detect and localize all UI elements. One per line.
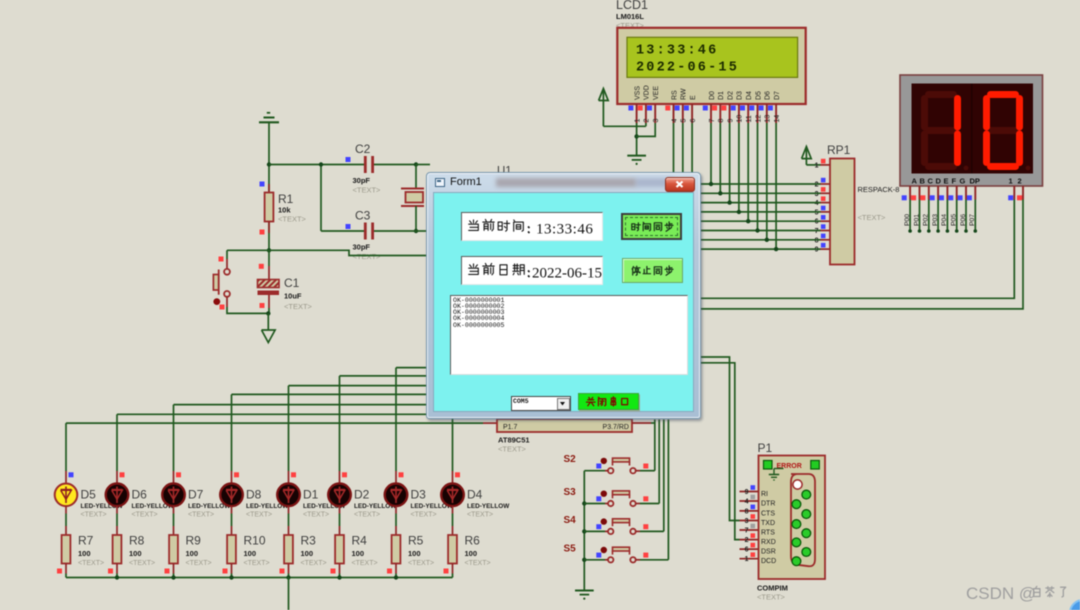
svg-text:12: 12 (755, 115, 762, 123)
textbox current date (461, 256, 603, 285)
wire D4 to R6 (452, 506, 454, 514)
DB9 green pin 3 (802, 510, 811, 519)
svg-text:P04: P04 (941, 214, 948, 226)
node junction at R1 top (267, 162, 271, 166)
svg-text:<TEXT>: <TEXT> (354, 512, 380, 519)
svg-text:5: 5 (815, 209, 819, 216)
svg-text:D5: D5 (81, 488, 97, 502)
svg-text:RS: RS (671, 90, 678, 100)
svg-text:C: C (928, 177, 934, 186)
svg-text:7: 7 (815, 228, 819, 235)
svg-text:R1: R1 (278, 192, 294, 206)
LED D5 (65, 471, 67, 484)
LED D8 (231, 471, 233, 484)
wire (415, 206, 417, 231)
wire LCD D6 down (766, 123, 768, 240)
LCD LM016L body (617, 28, 805, 104)
svg-text:S4: S4 (564, 515, 577, 526)
LED D3 (395, 471, 397, 484)
ground (bar style) below switches (575, 590, 594, 592)
wire LED bus D4 (below form) (452, 419, 454, 471)
svg-text:<TEXT>: <TEXT> (81, 512, 107, 519)
svg-text:5: 5 (681, 119, 688, 123)
svg-text:D1: D1 (303, 488, 319, 502)
svg-text:P02: P02 (923, 214, 930, 226)
resistor R3 (288, 526, 290, 535)
svg-text:RESPACK-8: RESPACK-8 (858, 185, 900, 194)
svg-text:1: 1 (634, 119, 641, 123)
wire mcu TXD to P1 (700, 357, 740, 521)
svg-text:2: 2 (815, 182, 819, 189)
svg-text:COMPIM: COMPIM (757, 584, 788, 593)
wire D8 to R10 (231, 506, 233, 514)
wire data row D0 (700, 183, 821, 185)
wire (321, 230, 364, 232)
wire LCD D2 down (729, 123, 731, 203)
LED D2 pin square (342, 472, 347, 477)
svg-text:AT89C51: AT89C51 (498, 436, 530, 445)
P1 pin 2 RXD (740, 539, 759, 541)
svg-text:<TEXT>: <TEXT> (303, 512, 329, 519)
wire (395, 574, 397, 578)
wire (268, 308, 270, 313)
svg-text:8: 8 (815, 237, 819, 244)
svg-text:E: E (944, 177, 949, 186)
RP1 pin 5 (821, 211, 831, 213)
svg-text:2022-06-15: 2022-06-15 (532, 266, 602, 282)
LCD screen (627, 37, 798, 77)
svg-text:D7: D7 (774, 91, 781, 100)
7-seg pin P07 (974, 186, 976, 200)
svg-text:<TEXT>: <TEXT> (465, 560, 491, 567)
wire data row D7 (700, 248, 821, 250)
wire (231, 574, 233, 578)
node junction C3 right (414, 229, 418, 233)
svg-text:P01: P01 (913, 214, 920, 226)
svg-text:R9: R9 (186, 534, 202, 548)
svg-text:C1: C1 (284, 276, 300, 290)
wire LED bus row D7 (174, 404, 501, 406)
svg-text:LED-YELLOW: LED-YELLOW (467, 503, 510, 510)
wire S2 to mcu (640, 470, 655, 472)
svg-text:7: 7 (709, 119, 716, 123)
svg-text:R3: R3 (301, 534, 317, 548)
LED D2 (339, 471, 341, 484)
P1 pin 6 DSR (740, 548, 759, 550)
svg-text:14: 14 (774, 115, 781, 123)
svg-text:R7: R7 (78, 534, 94, 548)
LED D5 pin square (69, 472, 74, 477)
wire S5 to rail (584, 559, 605, 561)
P1 pin 7 RTS (740, 529, 759, 531)
7-seg pin P00 (909, 186, 911, 200)
DB9 green pin 6 (792, 538, 801, 547)
P1 pin 4 DTR (740, 500, 759, 502)
svg-text:1: 1 (745, 556, 749, 563)
svg-text:D6: D6 (765, 91, 772, 100)
svg-text:D6: D6 (132, 488, 148, 502)
wire D2 to R4 (339, 506, 341, 514)
P1 pin 3 TXD (740, 520, 759, 522)
textbox current time (461, 212, 603, 241)
RP1 pin 1 (821, 164, 831, 166)
svg-text:3: 3 (745, 518, 749, 525)
svg-text:RXD: RXD (761, 539, 776, 546)
RP1 pin 2 (821, 183, 831, 185)
crystal X1 (401, 188, 424, 190)
svg-text:VDD: VDD (644, 85, 651, 100)
svg-text:LM016L: LM016L (616, 12, 644, 21)
7-segment display body (900, 75, 1043, 186)
P1 pin 8 CTS (740, 510, 759, 512)
wire (269, 164, 364, 166)
resistor R1 (260, 182, 265, 187)
svg-text:3: 3 (653, 119, 660, 123)
resistor R7 (65, 526, 67, 535)
wire data row D1 (700, 192, 821, 194)
resistor R10 (231, 526, 233, 535)
listbox (450, 295, 688, 375)
svg-text:<TEXT>: <TEXT> (278, 215, 307, 224)
7-seg pin P01 (919, 186, 921, 200)
Form1 client area (433, 192, 694, 412)
wire D5 to R7 (65, 506, 67, 514)
svg-text:D7: D7 (188, 488, 204, 502)
svg-text:6: 6 (745, 547, 749, 554)
wire LED bus row D3 (396, 367, 500, 369)
svg-text:7: 7 (745, 528, 749, 535)
wire LCD D3 down (738, 123, 740, 212)
svg-text:RTS: RTS (761, 530, 775, 537)
svg-text:D5: D5 (755, 91, 762, 100)
node junction D5 (755, 228, 759, 232)
wire LCD D7 down (775, 123, 777, 249)
svg-text:D4: D4 (467, 488, 483, 502)
LED D8 pin square (234, 472, 239, 477)
svg-text:30pF: 30pF (353, 243, 371, 252)
svg-text:<TEXT>: <TEXT> (186, 560, 212, 567)
svg-text:3: 3 (815, 191, 819, 198)
svg-text:P1: P1 (758, 441, 773, 455)
svg-text:S2: S2 (564, 454, 577, 465)
wire RW to U1 (682, 123, 684, 172)
wire RS to U1 (673, 123, 675, 172)
svg-text:B: B (920, 177, 926, 186)
wire mcu P3.7 stub (632, 422, 651, 424)
LED D6 (116, 471, 118, 484)
svg-text:<TEXT>: <TEXT> (467, 512, 493, 519)
svg-text:<TEXT>: <TEXT> (498, 445, 527, 454)
wire LED bus row D8 (232, 393, 501, 395)
wire data row D6 (700, 239, 821, 241)
svg-text:LCD1: LCD1 (616, 0, 648, 12)
svg-text:RI: RI (761, 491, 768, 498)
svg-text:D2: D2 (727, 91, 734, 100)
svg-text:D2: D2 (354, 488, 370, 502)
DB9 shell (791, 474, 815, 566)
DB9 green pin 5 (802, 529, 811, 538)
7-seg left digit showing 1 (929, 91, 954, 98)
wire data row D4 (700, 220, 821, 222)
svg-text:G: G (960, 177, 966, 186)
svg-text:P06: P06 (960, 214, 967, 226)
node junction D7 (774, 247, 778, 251)
svg-text:<TEXT>: <TEXT> (353, 186, 382, 195)
7-seg pin P02 (928, 186, 930, 200)
wire LCD D5 down (757, 123, 759, 231)
svg-text:11: 11 (746, 115, 753, 122)
power rail symbol VCC (top left) (259, 121, 279, 123)
svg-text:D0: D0 (709, 91, 716, 100)
svg-text:1: 1 (1009, 177, 1013, 186)
svg-text:8: 8 (745, 508, 749, 515)
wire (415, 165, 417, 189)
svg-text:DP: DP (970, 177, 980, 186)
ground symbol inside P1 (773, 469, 775, 475)
wire S2 to rail (584, 470, 605, 472)
svg-text:<TEXT>: <TEXT> (301, 560, 327, 567)
svg-text:<TEXT>: <TEXT> (757, 593, 786, 602)
svg-text:100: 100 (352, 549, 365, 558)
wire VSS down (636, 123, 638, 155)
RP1 pin 3 (821, 192, 831, 194)
wire LED bus row D1 (289, 385, 501, 387)
svg-text:A: A (912, 177, 918, 186)
node junction C2 right (414, 162, 418, 166)
svg-text:4: 4 (745, 499, 749, 506)
svg-text:100: 100 (129, 549, 142, 558)
svg-text:R6: R6 (465, 534, 481, 548)
node junction D1 (718, 191, 722, 195)
wire LED bus row D5 (66, 422, 483, 424)
P1 pin 9 RI (740, 491, 759, 493)
combobox COM5 (511, 396, 571, 411)
wire data row D2 (700, 202, 821, 204)
svg-text:D3: D3 (737, 91, 744, 100)
wire LCD D1 down (719, 123, 721, 193)
power symbol VDD (arrow) (599, 89, 609, 101)
svg-text:D4: D4 (746, 91, 753, 100)
resistor R9 (173, 526, 175, 535)
svg-text:DCD: DCD (761, 558, 776, 565)
svg-text:<TEXT>: <TEXT> (129, 560, 155, 567)
svg-text:<TEXT>: <TEXT> (284, 302, 313, 311)
wire (320, 165, 322, 232)
svg-text:2022-06-15: 2022-06-15 (636, 61, 739, 76)
svg-text:2: 2 (1018, 177, 1022, 186)
svg-text:P05: P05 (951, 214, 958, 226)
button 停止同步 (622, 258, 683, 283)
svg-text:10uF: 10uF (284, 292, 302, 301)
capacitor C3 (346, 224, 351, 229)
LED D4 pin square (455, 472, 460, 477)
7-seg pin P06 (965, 186, 967, 200)
aero ghost smudges (496, 178, 636, 187)
wire power to VDD (603, 125, 646, 127)
wire (339, 574, 341, 578)
wire switch rail (583, 471, 585, 590)
resistor R4 (339, 526, 341, 535)
wire S4 to rail (584, 530, 605, 532)
wire LCD D4 down (747, 123, 749, 221)
RP1 pin 7 (821, 230, 831, 232)
wire XTAL wires to U1 (416, 164, 430, 166)
LED D3 pin square (399, 472, 404, 477)
wire D3 to R5 (395, 506, 397, 514)
svg-text:TXD: TXD (761, 520, 775, 527)
wire (65, 574, 67, 578)
node junction R1 bottom (267, 248, 271, 252)
floating blue button (bottom-right corner) (1070, 600, 1080, 610)
svg-text:100: 100 (465, 549, 478, 558)
wire LED bus row D6 (117, 413, 500, 415)
Form1 title bar (427, 173, 700, 192)
title text (450, 176, 482, 188)
svg-text:E: E (690, 95, 697, 100)
button 关闭串口 (578, 393, 639, 410)
P1 pin 1 DCD (740, 558, 759, 560)
svg-text:RP1: RP1 (827, 143, 851, 157)
svg-text:P3.7/RD: P3.7/RD (603, 424, 629, 431)
resistor R6 (452, 526, 454, 535)
wire power to RP1 pin1 (806, 164, 820, 166)
wire E to U1 (691, 123, 693, 172)
svg-text:DTR: DTR (761, 501, 775, 508)
svg-text:R4: R4 (352, 534, 368, 548)
ground (bar style) below LCD (627, 155, 646, 157)
svg-text:CSDN @: CSDN @ (966, 584, 1036, 603)
Form1 window (426, 172, 701, 419)
node junction VSS/VEE (634, 134, 638, 138)
svg-text:<TEXT>: <TEXT> (246, 512, 272, 519)
LED D7 (173, 471, 175, 484)
svg-text:R10: R10 (244, 534, 266, 548)
7-seg digit pin 2 (1022, 186, 1024, 200)
wire D6 to R8 (116, 506, 118, 514)
DB9 green pin 7 (802, 548, 811, 557)
svg-text:<TEXT>: <TEXT> (353, 252, 382, 261)
svg-text:P07: P07 (969, 214, 976, 226)
wire to ground (267, 313, 269, 330)
svg-text:P03: P03 (932, 214, 939, 226)
svg-text:S3: S3 (564, 487, 577, 498)
svg-text:<TEXT>: <TEXT> (408, 560, 434, 567)
svg-text:D: D (936, 177, 942, 186)
svg-text:<TEXT>: <TEXT> (78, 560, 104, 567)
svg-text:100: 100 (186, 549, 199, 558)
svg-text:C2: C2 (355, 142, 371, 156)
svg-text:<TEXT>: <TEXT> (352, 560, 378, 567)
wire (268, 122, 270, 250)
svg-text:D1: D1 (718, 91, 725, 100)
node junction C1/button (266, 311, 270, 315)
LED D6 pin square (120, 472, 125, 477)
capacitor C2 (346, 157, 351, 162)
svg-text:13:33:46: 13:33:46 (536, 222, 593, 238)
wire S4 to mcu (640, 530, 664, 532)
RP1 pin 9 (821, 248, 831, 250)
svg-text:CTS: CTS (761, 510, 775, 517)
svg-text:D3: D3 (411, 488, 427, 502)
button 时间同步 (621, 213, 682, 240)
7-seg right digit showing 0 (991, 127, 1016, 134)
wire (288, 574, 290, 578)
svg-text:C3: C3 (355, 209, 371, 223)
wire RST net (269, 250, 430, 255)
power symbol at RP1 pin1 (arrow) (802, 147, 812, 159)
wire data row D5 (700, 230, 821, 232)
svg-text:P00: P00 (904, 214, 911, 226)
wire (374, 164, 416, 166)
svg-text:1: 1 (815, 163, 819, 170)
wire button to ground (227, 307, 268, 313)
svg-text:13: 13 (765, 115, 772, 123)
svg-text:S5: S5 (564, 543, 577, 554)
svg-text:R5: R5 (408, 534, 424, 548)
svg-text:9: 9 (815, 247, 819, 254)
svg-text:100: 100 (244, 549, 257, 558)
7-seg pin P03 (937, 186, 939, 200)
wire LED bus row D2 (340, 375, 501, 377)
svg-text:DSR: DSR (761, 549, 776, 556)
window icon (435, 178, 445, 187)
DB9 green pin 1 (802, 490, 811, 499)
node junction D3 (737, 210, 741, 214)
7-seg pin P04 (946, 186, 948, 200)
RP1 pin 6 (821, 220, 831, 222)
svg-text:<TEXT>: <TEXT> (188, 512, 214, 519)
svg-text:6: 6 (690, 119, 697, 123)
svg-text:4: 4 (671, 119, 678, 123)
LED D7 pin square (176, 472, 181, 477)
wire S3 to rail (584, 503, 605, 505)
7-seg pin P05 (956, 186, 958, 200)
RP1 pin 8 (821, 239, 831, 241)
svg-text:9: 9 (727, 119, 734, 123)
DB9 pin 5 (white) (793, 480, 802, 489)
wire mcu RXD to P1 (700, 363, 740, 540)
node junction D2 (727, 200, 731, 204)
wire (452, 574, 454, 578)
wire LCD D0 down (710, 123, 712, 184)
wire LED common rail (66, 577, 453, 579)
svg-text:6: 6 (815, 219, 819, 226)
wire digit2 to mcu (700, 200, 1023, 309)
LED D1 (288, 471, 290, 484)
svg-text:<TEXT>: <TEXT> (411, 512, 437, 519)
svg-text:VSS: VSS (634, 86, 641, 100)
svg-text:30pF: 30pF (353, 176, 371, 185)
svg-text:9: 9 (745, 489, 749, 496)
svg-text:P1.7: P1.7 (503, 424, 518, 431)
svg-text:8: 8 (718, 119, 725, 123)
wire S5 to mcu (640, 559, 668, 561)
svg-text:<TEXT>: <TEXT> (244, 560, 270, 567)
wire (173, 574, 175, 578)
svg-text:10k: 10k (278, 206, 291, 215)
wire D1 to R3 (288, 506, 290, 514)
wire (374, 230, 416, 232)
svg-text:<TEXT>: <TEXT> (132, 512, 158, 519)
wire S3 to mcu (640, 503, 659, 505)
wire VEE to junction (637, 123, 656, 136)
DB9 green pin 2 (792, 500, 801, 509)
node junction D0 (709, 182, 713, 186)
svg-text:100: 100 (301, 549, 314, 558)
svg-text:F: F (952, 177, 957, 186)
ground (arrow style) (262, 330, 276, 343)
close button (665, 177, 695, 192)
